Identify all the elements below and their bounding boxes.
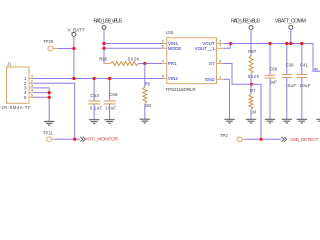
wire ST to divider (224, 64, 252, 85)
resistor R5 1M (143, 81, 151, 119)
svg-text:562K: 562K (128, 56, 140, 61)
svg-text:5: 5 (162, 44, 164, 48)
wire MODE row (104, 47, 162, 49)
junction VBATT_COMM (289, 42, 292, 45)
svg-text:VIN2: VIN2 (168, 76, 179, 81)
svg-text:RAD_USB_VBUS: RAD_USB_VBUS (94, 19, 123, 25)
junction NTC node (73, 138, 76, 141)
resistor R7 1M (249, 84, 256, 119)
wire R5 top (144, 64, 146, 88)
ground R5 (140, 119, 150, 123)
svg-text:C69: C69 (269, 66, 278, 71)
op-amp U15 TPS2116DRLR (165, 30, 216, 92)
junction C69 (268, 42, 271, 45)
ground U15 (224, 119, 234, 123)
resistor R87 562K (248, 49, 260, 84)
svg-text:R87: R87 (248, 49, 257, 54)
svg-text:4: 4 (162, 60, 164, 64)
capacitor C63 0.1uF (88, 79, 102, 120)
junction VIN1 (102, 42, 105, 45)
svg-text:1: 1 (31, 75, 33, 79)
svg-text:7: 7 (219, 44, 221, 48)
capacitor C68 10uF (104, 79, 118, 120)
connector J1 (0, 61, 31, 110)
svg-text:10uF: 10uF (300, 83, 311, 88)
svg-text:IN: IN (314, 66, 318, 71)
J1 external pin numbers (31, 75, 33, 98)
wire VOUT bus (231, 43, 313, 45)
ground J1 (44, 121, 54, 125)
svg-text:10uF: 10uF (105, 106, 116, 111)
ground C63 (89, 120, 99, 124)
svg-text:GND: GND (205, 77, 216, 82)
wire bus right end to IN (313, 44, 320, 72)
svg-text:8: 8 (219, 60, 221, 64)
power flag V_BATT (68, 27, 85, 36)
svg-text:MODE: MODE (168, 46, 182, 51)
svg-text:5: 5 (31, 93, 33, 97)
capacitor C38 10uF (282, 44, 297, 120)
svg-text:-2R-SM4A-TF: -2R-SM4A-TF (0, 105, 31, 110)
svg-text:U15: U15 (166, 30, 174, 35)
J1 pin stubs (29, 79, 33, 98)
wire J1 pin2 to NTC node (33, 83, 75, 139)
resistor R96 562K (99, 56, 139, 65)
net label NTC_MONITOR (80, 137, 118, 143)
wire GND pin down (224, 79, 230, 119)
capacitor C69 1uF (265, 44, 278, 120)
wire divider to USB_DETECT (252, 84, 262, 139)
wire VBATT_COMM vertical (290, 29, 292, 43)
U15 pin numbers (162, 39, 222, 79)
svg-text:NTC_MONITOR: NTC_MONITOR (86, 137, 118, 143)
svg-text:PR1: PR1 (168, 61, 177, 66)
svg-text:0.1uF: 0.1uF (90, 105, 103, 110)
junction VOUT (229, 42, 232, 45)
wire RAD_USB_VBUS right vertical (250, 29, 252, 55)
net label USB_DETECT (282, 137, 319, 143)
svg-text:R5: R5 (145, 81, 151, 86)
U15 right pin stubs (217, 44, 225, 80)
junction ST/R87/R7 (250, 83, 253, 86)
junction C38 (285, 42, 288, 45)
junction C41 (300, 42, 303, 45)
svg-text:C68: C68 (109, 92, 118, 97)
ground R7 (246, 119, 256, 123)
svg-text:C41: C41 (300, 63, 309, 68)
svg-text:USB_DETECT: USB_DETECT (290, 137, 319, 143)
wire TP2 to USB_DETECT (246, 138, 282, 140)
svg-text:TPS2116DRLR: TPS2116DRLR (165, 87, 196, 92)
svg-text:1: 1 (219, 75, 221, 79)
wire R96 to PR1 (139, 63, 162, 65)
ground C38 (282, 119, 292, 123)
junction C63 (93, 77, 96, 80)
svg-text:2: 2 (219, 39, 221, 43)
ground partial right edge (316, 119, 320, 123)
U15 left pin stubs (162, 44, 167, 79)
junction PR1/R5 (143, 62, 146, 65)
wire J1 pin5 (33, 96, 49, 98)
wire VOUT__1 up (224, 44, 230, 49)
svg-text:TP21: TP21 (43, 130, 54, 135)
svg-text:TP2: TP2 (220, 133, 228, 138)
wire TP29 to V_BATT (58, 48, 74, 50)
power flag VBATT_COMM (275, 19, 306, 30)
wire VIN1 row (104, 43, 162, 45)
svg-text:562K: 562K (248, 74, 260, 79)
U15 pin names (168, 41, 216, 82)
junction TP29/V_BATT (72, 47, 75, 50)
junction C68 (108, 77, 111, 80)
svg-text:6: 6 (162, 75, 164, 79)
svg-text:VOUT__1: VOUT__1 (195, 46, 216, 51)
power flag RAD_USB_VBUS (left) (94, 19, 123, 30)
J1 pin numbers inside (24, 76, 27, 100)
junction MODE (102, 47, 105, 50)
svg-text:VBATT_COMM: VBATT_COMM (275, 19, 306, 25)
wire J1 pin1 to VIN2 row (33, 78, 162, 80)
wire VOUT to bus (224, 43, 231, 45)
power flag RAD_USB_VBUS (right) (231, 19, 260, 30)
svg-text:C63: C63 (90, 93, 99, 98)
svg-text:ST: ST (209, 61, 215, 66)
wire V_BATT vertical (73, 36, 75, 78)
capacitor C41 10uF (297, 44, 311, 120)
svg-text:R96: R96 (99, 56, 108, 61)
ground C68 (104, 120, 114, 124)
wire RAD_USB_VBUS left vertical (103, 29, 105, 63)
test point TP29 (43, 39, 58, 51)
svg-text:1uF: 1uF (270, 80, 277, 85)
junction pin4 (48, 91, 51, 94)
svg-text:J1: J1 (7, 61, 12, 66)
test point TP2 (220, 133, 246, 142)
junction pin5 (48, 96, 51, 99)
svg-text:1M: 1M (145, 103, 151, 108)
test point TP21 (43, 130, 56, 141)
junction USB_DETECT node (259, 138, 262, 141)
svg-text:4: 4 (31, 89, 33, 93)
svg-text:C38: C38 (286, 63, 295, 68)
svg-text:RAD_USB_VBUS: RAD_USB_VBUS (231, 19, 260, 25)
ground C69 (265, 119, 275, 123)
wire J1 pin4 (33, 92, 49, 94)
svg-text:3: 3 (31, 84, 33, 88)
wire J1 pin3 down (33, 88, 49, 121)
junction V_BATT on pin1 row (72, 77, 75, 80)
svg-text:2: 2 (31, 79, 33, 83)
svg-text:V_BATT: V_BATT (68, 27, 85, 32)
svg-text:3: 3 (162, 40, 164, 44)
wire TP21 to NTC label (56, 138, 81, 140)
svg-text:TP29: TP29 (43, 39, 54, 44)
ground C41 (297, 119, 307, 123)
